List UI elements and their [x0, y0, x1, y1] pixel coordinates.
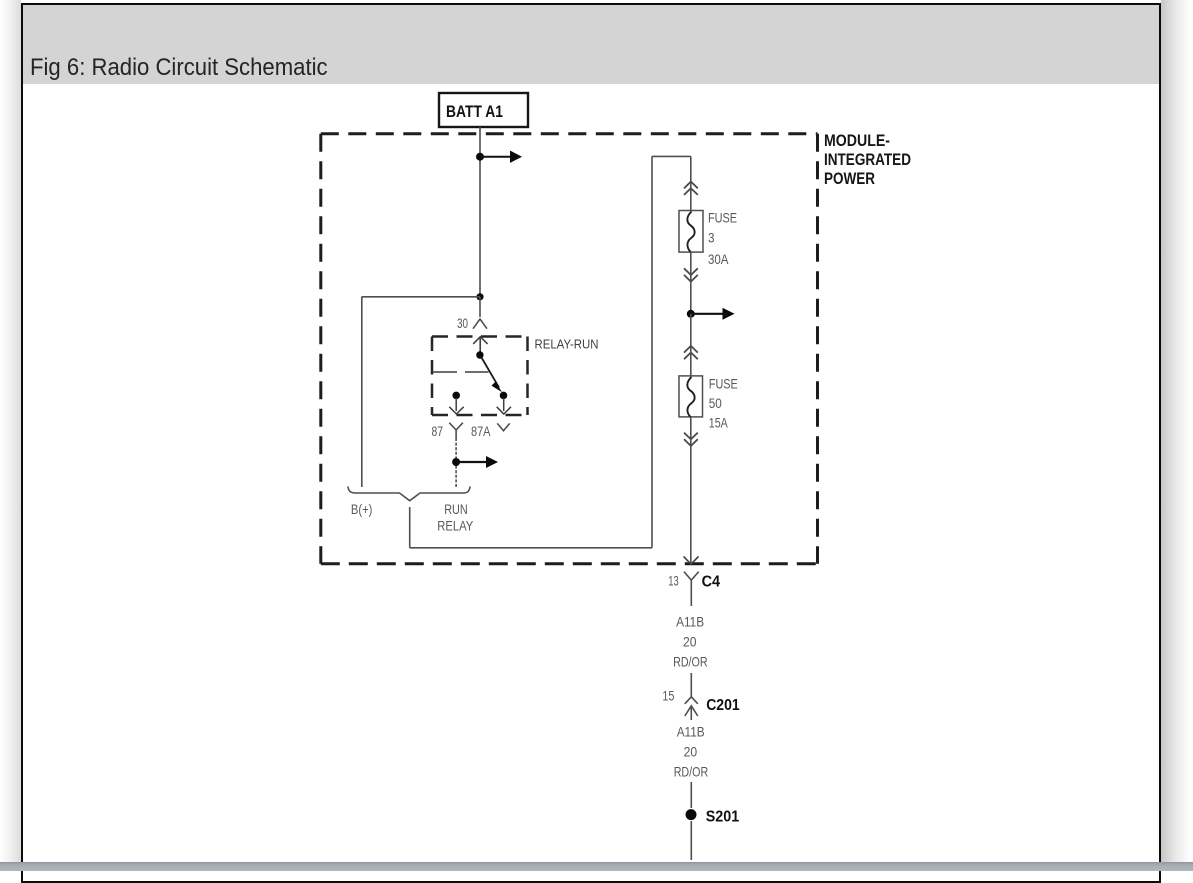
svg-text:13: 13: [668, 573, 679, 589]
svg-text:30: 30: [457, 315, 468, 331]
svg-text:A11B: A11B: [677, 724, 705, 740]
junction dot on 87 output: [452, 458, 460, 466]
connector chevrons up (into fuse block): [684, 182, 698, 195]
wire run relay output right: [410, 547, 652, 549]
svg-text:15: 15: [662, 688, 674, 704]
connector C201 symbol: [685, 697, 698, 720]
wire label A11B 20 RD/OR (upper): [673, 614, 708, 670]
svg-text:3: 3: [708, 230, 715, 246]
svg-text:RD/OR: RD/OR: [674, 764, 709, 780]
wire BATT A1 down to junction: [479, 127, 481, 297]
junction dot feeding relay and B(+): [476, 293, 483, 300]
relay contact 87A (dot and down arrow): [497, 392, 511, 414]
arrow into C4 at module boundary: [684, 556, 699, 564]
connector chevrons down (out of fuse block): [684, 268, 698, 281]
label RUN RELAY: [437, 501, 474, 534]
splice S201 dot: [686, 809, 697, 820]
svg-text:S201: S201: [706, 809, 740, 826]
off-page arrow right of fuse junction: [691, 308, 735, 320]
svg-text:C201: C201: [706, 697, 740, 714]
wire below S201: [690, 821, 692, 860]
wire B(+) vertical drop: [361, 297, 363, 487]
relay coil dashed line: [432, 371, 489, 373]
svg-text:RUN: RUN: [444, 501, 468, 517]
wire run relay output down: [409, 507, 411, 548]
wire pin 87 down to brace: [455, 438, 457, 487]
wire loop up to fuses: [651, 156, 653, 547]
relay switch blade to 87A: [482, 358, 503, 393]
svg-text:FUSE: FUSE: [709, 376, 738, 392]
relay RELAY-RUN dashed box: [432, 337, 528, 416]
off-page arrow right of 87 output: [456, 456, 498, 468]
junction dot between fuses: [687, 310, 695, 318]
svg-text:FUSE: FUSE: [708, 210, 737, 226]
svg-text:20: 20: [684, 744, 698, 760]
svg-text:87: 87: [432, 423, 444, 439]
svg-text:A11B: A11B: [676, 614, 704, 630]
label FUSE 50 15A: [709, 376, 738, 431]
svg-text:MODULE-: MODULE-: [824, 131, 890, 150]
svg-text:87A: 87A: [471, 423, 491, 439]
relay common arm arrow (pin 30 entry): [473, 337, 487, 359]
wire loop top to fuse chain: [652, 155, 691, 157]
wire left from junction to B(+) drop: [362, 296, 480, 298]
connector chevrons up (into fuse 50): [684, 346, 698, 359]
svg-text:BATT A1: BATT A1: [446, 102, 503, 121]
svg-text:50: 50: [709, 395, 722, 411]
svg-text:B(+): B(+): [351, 501, 373, 517]
svg-text:C4: C4: [702, 574, 721, 591]
off-page arrow right of top junction: [480, 151, 522, 163]
svg-text:RD/OR: RD/OR: [673, 654, 708, 670]
svg-text:RELAY-RUN: RELAY-RUN: [535, 337, 599, 352]
module label MODULE-INTEGRATED POWER: [824, 131, 911, 188]
wire fuse chain top: [690, 156, 692, 211]
svg-text:INTEGRATED: INTEGRATED: [824, 150, 911, 169]
module boundary dashed box MODULE-INTEGRATED POWER: [321, 134, 818, 564]
wire down to second fuse: [690, 314, 692, 376]
svg-text:POWER: POWER: [824, 169, 875, 188]
svg-text:20: 20: [683, 634, 697, 650]
connector C4 Y symbol: [684, 572, 699, 606]
svg-text:RELAY: RELAY: [437, 518, 474, 534]
battery feed box BATT A1: [439, 93, 528, 127]
svg-text:15A: 15A: [709, 415, 728, 431]
svg-text:30A: 30A: [708, 251, 729, 267]
label FUSE 3 30A: [708, 210, 737, 268]
pin 30 wire into relay: [479, 297, 481, 317]
brace under B(+) and RUN RELAY: [348, 487, 470, 501]
relay contact 87 (dot and down arrow): [449, 392, 463, 414]
connector pin 30 chevron: [473, 319, 487, 329]
connector pin 87 Y symbol: [449, 423, 463, 438]
wire into C201: [690, 673, 692, 697]
wire below fuse F3: [690, 252, 692, 314]
junction dot under BATT A1: [476, 153, 484, 161]
connector pin 87A chevron: [497, 423, 509, 430]
fuse F50 body: [679, 376, 703, 417]
wire label A11B 20 RD/OR (lower): [674, 724, 709, 780]
wire below fuse F50: [690, 417, 692, 562]
connector chevrons down (out of fuse 50): [684, 433, 698, 446]
wire into splice S201: [690, 782, 692, 808]
fuse F3 body: [679, 211, 703, 253]
